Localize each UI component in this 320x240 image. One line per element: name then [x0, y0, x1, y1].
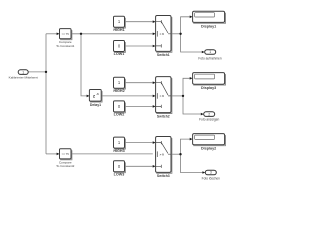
- svg-text:HIGH1: HIGH1: [113, 28, 124, 32]
- svg-text:HIGH3: HIGH3: [113, 149, 124, 153]
- svg-text:3: 3: [210, 171, 212, 175]
- svg-text:> 0: > 0: [160, 152, 165, 156]
- svg-text:To Constant1: To Constant1: [56, 44, 75, 48]
- svg-text:>= 75: >= 75: [62, 152, 70, 156]
- svg-text:Foto löschen: Foto löschen: [202, 177, 220, 181]
- svg-text:1: 1: [22, 70, 24, 74]
- svg-text:HIGH2: HIGH2: [113, 89, 124, 93]
- svg-text:> 0: > 0: [160, 32, 165, 36]
- svg-text:>= 75: >= 75: [62, 32, 70, 36]
- svg-text:Switch1: Switch1: [157, 53, 170, 57]
- svg-text:Kalibrierter Mittelwert: Kalibrierter Mittelwert: [9, 75, 38, 79]
- svg-text:LOW3: LOW3: [114, 173, 125, 177]
- svg-text:Switch3: Switch3: [157, 174, 170, 178]
- svg-text:Delay1: Delay1: [90, 103, 101, 107]
- svg-text:Display1: Display1: [201, 24, 216, 28]
- svg-text:To Constant2: To Constant2: [56, 164, 75, 168]
- svg-text:> 0: > 0: [160, 94, 165, 98]
- svg-text:LOW1: LOW1: [114, 52, 125, 56]
- svg-text:Display2: Display2: [201, 147, 216, 151]
- svg-text:Foto anzeigen: Foto anzeigen: [199, 118, 219, 122]
- svg-text:Foto aufnehmen: Foto aufnehmen: [198, 57, 221, 61]
- svg-text:LOW2: LOW2: [114, 113, 125, 117]
- svg-text:Display3: Display3: [201, 86, 216, 90]
- svg-text:2: 2: [208, 112, 210, 116]
- svg-text:Switch2: Switch2: [157, 114, 170, 118]
- svg-text:1: 1: [209, 50, 211, 54]
